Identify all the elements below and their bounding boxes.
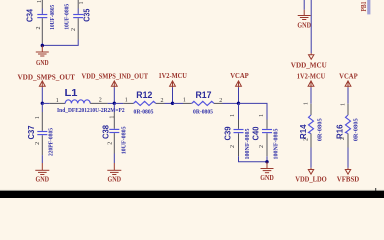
svg-text:2: 2 [71,28,77,31]
svg-text:R17: R17 [196,90,212,100]
svg-text:1: 1 [259,114,265,117]
svg-text:2: 2 [99,98,102,104]
ground under C39/C40 [260,162,274,182]
power port 1V2-MCU (mid) [158,71,187,104]
svg-text:10UF-0805: 10UF-0805 [49,4,56,30]
R14 pin 1 lead [310,104,312,115]
svg-text:C37: C37 [27,125,36,140]
wire stub into VFBSD [347,168,349,170]
svg-text:2: 2 [35,142,41,145]
capacitor C34 [26,0,48,43]
svg-text:C40: C40 [251,126,260,141]
power port VDD_LDO (down) [295,170,327,184]
power port 1V2-MCU (right) [297,72,326,104]
svg-text:C35: C35 [83,8,92,21]
svg-text:1: 1 [183,98,186,104]
svg-text:1: 1 [109,116,115,119]
svg-text:C39: C39 [224,126,233,141]
junction R17/C39/C40 node [237,102,240,105]
wire junction to C34 [41,43,43,45]
wire R17 to junction [223,102,239,104]
wire stub into VDD_MCU [310,53,312,55]
wire rail junction down to C37 [41,103,43,112]
wire R16 to VFBSD [347,148,349,168]
status bar tick [375,188,376,191]
status bar divider [0,189,384,192]
svg-text:L1: L1 [65,88,78,99]
svg-text:C38: C38 [101,124,110,139]
svg-text:2: 2 [340,137,346,140]
junction C39/C40/GND [265,160,268,163]
svg-text:VFBSD: VFBSD [337,175,360,184]
power port VDD_MCU (down) [291,55,328,70]
wire C40 bottom to junction [266,156,268,162]
wire top to VDD_MCU [310,0,312,53]
wire rail to L1 [42,102,49,104]
svg-text:GND: GND [108,175,122,184]
svg-text:2: 2 [219,98,222,104]
ground under C38 [107,163,121,184]
svg-text:2: 2 [230,145,236,148]
svg-text:100NF-0805: 100NF-0805 [273,128,280,160]
wire R12 to junction [165,102,173,104]
svg-text:220PF-0805: 220PF-0805 [48,127,55,156]
svg-text:2: 2 [303,138,309,141]
power port VCAP (mid) [230,71,249,104]
inductor L1 [65,88,91,103]
svg-text:0R-0805: 0R-0805 [134,108,155,115]
capacitor C35 [73,0,91,40]
R16 pin 2 lead [347,134,349,148]
capacitor C38 [101,112,119,163]
resistor R12 [134,90,156,106]
svg-text:1: 1 [304,102,310,105]
R17 pin 1 lead [183,102,192,104]
R14 pin 2 lead [310,134,312,148]
svg-text:1: 1 [79,2,85,5]
wire junction to C40 corner [239,103,268,119]
wire junction to R17 [173,102,184,104]
svg-text:VCAP: VCAP [230,71,249,80]
svg-text:1V2-MCU: 1V2-MCU [158,71,187,80]
svg-text:R12: R12 [136,90,152,100]
svg-text:1: 1 [125,98,128,104]
svg-text:VDD_LDO: VDD_LDO [295,175,327,184]
svg-text:R14: R14 [299,124,308,139]
wire top to GND (right) [303,0,305,10]
svg-text:VDD_MCU: VDD_MCU [291,61,328,70]
junction VDD_SMPS_OUT rail [41,102,44,105]
svg-text:2: 2 [161,98,164,104]
junction L1/R12/C38 node [113,102,116,105]
capacitor C37 [27,112,47,163]
svg-text:0R-0805: 0R-0805 [352,118,359,142]
R12 pin 2 lead [156,102,165,104]
svg-text:VDD_SMPS_OUT: VDD_SMPS_OUT [17,72,75,81]
svg-text:100NF-0805: 100NF-0805 [244,128,251,160]
svg-text:2: 2 [36,27,42,30]
svg-text:GND: GND [297,21,311,30]
wire C35 to junction [42,40,78,46]
svg-text:VCAP: VCAP [339,72,358,81]
wire junction down to C38 [113,103,115,112]
L1 pin 1 lead [50,102,65,104]
svg-text:10UF-0805: 10UF-0805 [64,3,71,30]
wire junction to R12 [114,102,123,104]
svg-text:2: 2 [259,145,265,148]
capacitor C40 [251,120,272,157]
svg-text:1: 1 [230,114,236,117]
svg-text:PB1: PB1 [359,1,368,11]
junction R12/R17 node [171,102,174,105]
R12 pin 1 lead [123,102,133,104]
R17 pin 2 lead [214,102,223,104]
junction at C34/C35/GND [41,44,44,47]
L1 pin 2 lead [90,102,107,104]
svg-text:2: 2 [107,142,113,145]
svg-text:1: 1 [341,103,347,106]
svg-text:1: 1 [56,98,59,104]
wire C39 bottom to junction [239,156,268,162]
svg-text:0R-0805: 0R-0805 [193,108,214,115]
svg-text:0R-0805: 0R-0805 [317,118,324,142]
resistor R16 [336,115,351,139]
svg-text:1: 1 [37,0,43,3]
svg-text:R16: R16 [336,124,345,139]
status bar [0,191,384,198]
resistor R17 [192,90,214,106]
resistor R14 [299,115,314,139]
power port VFBSD (down) [337,170,360,184]
svg-text:GND: GND [260,173,274,182]
svg-text:GND: GND [36,58,49,67]
svg-text:10UF-0805: 10UF-0805 [120,126,127,155]
svg-text:1V2-MCU: 1V2-MCU [297,72,326,81]
svg-text:1: 1 [35,116,41,119]
svg-text:VDD_SMPS_IND_OUT: VDD_SMPS_IND_OUT [82,72,149,81]
wire L1 to junction [108,102,115,104]
power port VDD_SMPS_IND_OUT [82,72,149,104]
capacitor C39 [224,120,244,157]
wire junction down to C39 [238,103,240,119]
R16 pin 1 lead [347,104,349,115]
ground under C37 [35,163,49,184]
svg-text:C34: C34 [26,9,35,22]
ground under C34/C35 [36,46,49,68]
wire stub into VDD_LDO [310,168,312,170]
power port VCAP (right) [339,72,358,104]
power port VDD_SMPS_OUT [17,72,75,103]
ground top right [297,10,311,30]
bus stub at PB1 [367,0,370,14]
wire R14 to VDD_LDO [310,148,312,168]
svg-text:GND: GND [36,175,50,184]
